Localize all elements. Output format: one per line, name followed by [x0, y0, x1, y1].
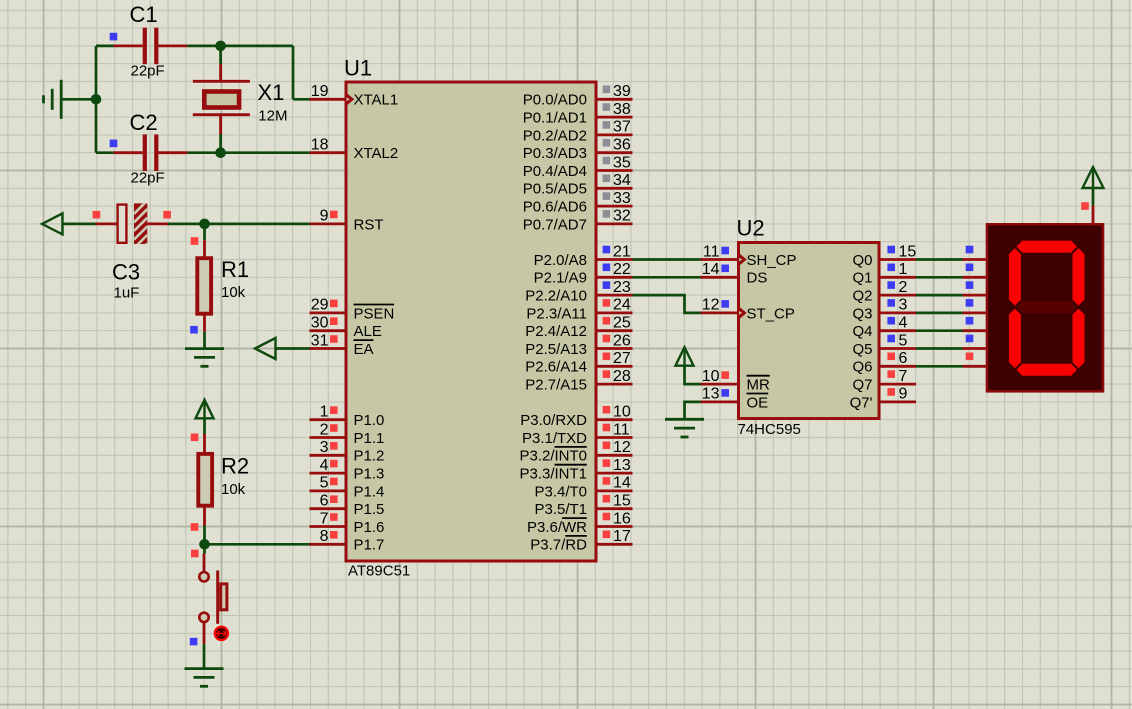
- svg-text:31: 31: [311, 332, 329, 349]
- svg-text:12M: 12M: [258, 107, 287, 124]
- svg-text:DS: DS: [747, 270, 768, 287]
- svg-text:22pF: 22pF: [131, 63, 165, 80]
- svg-text:12: 12: [702, 297, 720, 314]
- svg-text:13: 13: [702, 386, 720, 403]
- svg-text:1: 1: [899, 261, 908, 278]
- svg-text:Q3: Q3: [852, 305, 872, 322]
- svg-text:P0.6/AD6: P0.6/AD6: [523, 199, 587, 216]
- svg-text:P2.4/A12: P2.4/A12: [525, 323, 587, 340]
- svg-text:33: 33: [613, 190, 631, 207]
- svg-text:P0.0/AD0: P0.0/AD0: [523, 92, 587, 109]
- svg-text:1: 1: [320, 404, 329, 421]
- svg-text:37: 37: [613, 119, 631, 136]
- svg-text:SH_CP: SH_CP: [747, 252, 797, 269]
- svg-text:22: 22: [613, 261, 631, 278]
- svg-text:Q2: Q2: [852, 288, 872, 305]
- svg-text:7: 7: [320, 510, 329, 527]
- svg-text:18: 18: [311, 137, 329, 154]
- svg-text:C3: C3: [112, 260, 140, 285]
- svg-text:P3.2/INT0: P3.2/INT0: [519, 448, 587, 465]
- svg-text:19: 19: [311, 83, 329, 100]
- svg-text:C1: C1: [130, 2, 158, 27]
- svg-text:P2.0/A8: P2.0/A8: [534, 252, 587, 269]
- svg-text:P3.6/WR: P3.6/WR: [527, 519, 587, 536]
- svg-text:3: 3: [320, 439, 329, 456]
- svg-text:P0.4/AD4: P0.4/AD4: [523, 163, 587, 180]
- svg-text:1uF: 1uF: [114, 285, 140, 302]
- svg-text:P1.7: P1.7: [354, 537, 385, 554]
- svg-text:U1: U1: [344, 56, 372, 81]
- svg-text:P2.5/A13: P2.5/A13: [525, 341, 587, 358]
- svg-text:Q5: Q5: [852, 341, 872, 358]
- svg-text:P1.0: P1.0: [354, 412, 385, 429]
- svg-text:3: 3: [899, 297, 908, 314]
- svg-text:P2.6/A14: P2.6/A14: [525, 359, 587, 376]
- svg-text:PSEN: PSEN: [354, 305, 395, 322]
- svg-text:10k: 10k: [221, 284, 246, 301]
- svg-text:22pF: 22pF: [131, 170, 165, 187]
- svg-text:Q7: Q7: [852, 377, 872, 394]
- svg-text:12: 12: [613, 439, 631, 456]
- svg-text:MR: MR: [747, 377, 770, 394]
- svg-text:26: 26: [613, 332, 631, 349]
- svg-text:4: 4: [899, 315, 908, 332]
- svg-text:XTAL1: XTAL1: [354, 92, 399, 109]
- svg-text:15: 15: [613, 493, 631, 510]
- svg-text:RST: RST: [354, 216, 384, 233]
- svg-text:11: 11: [703, 243, 720, 260]
- svg-text:34: 34: [613, 172, 631, 189]
- svg-text:8: 8: [320, 528, 329, 545]
- svg-text:24: 24: [613, 297, 631, 314]
- svg-text:P2.7/A15: P2.7/A15: [525, 377, 587, 394]
- svg-text:23: 23: [613, 279, 631, 296]
- svg-text:5: 5: [899, 332, 908, 349]
- svg-text:10: 10: [702, 368, 720, 385]
- svg-text:27: 27: [613, 350, 631, 367]
- svg-text:XTAL2: XTAL2: [354, 145, 399, 162]
- svg-text:P1.3: P1.3: [354, 466, 385, 483]
- svg-text:10k: 10k: [221, 481, 246, 498]
- svg-text:Q4: Q4: [852, 323, 872, 340]
- svg-text:13: 13: [613, 457, 631, 474]
- svg-text:6: 6: [320, 493, 329, 510]
- svg-text:25: 25: [613, 315, 631, 332]
- svg-text:14: 14: [613, 475, 631, 492]
- svg-text:OE: OE: [747, 394, 769, 411]
- svg-text:P3.1/TXD: P3.1/TXD: [522, 430, 587, 447]
- svg-text:P2.1/A9: P2.1/A9: [534, 270, 587, 287]
- svg-text:P1.5: P1.5: [354, 501, 385, 518]
- svg-text:6: 6: [899, 350, 908, 367]
- svg-text:P0.2/AD2: P0.2/AD2: [523, 127, 587, 144]
- svg-text:32: 32: [613, 208, 631, 225]
- svg-text:Q0: Q0: [852, 252, 872, 269]
- svg-text:7: 7: [899, 368, 908, 385]
- svg-text:U2: U2: [737, 216, 765, 241]
- svg-text:P3.5/T1: P3.5/T1: [534, 501, 587, 518]
- svg-text:39: 39: [613, 83, 631, 100]
- svg-text:ST_CP: ST_CP: [747, 305, 795, 322]
- svg-text:R1: R1: [221, 257, 249, 282]
- svg-text:4: 4: [320, 457, 329, 474]
- svg-text:11: 11: [613, 421, 630, 438]
- svg-text:P1.1: P1.1: [354, 430, 385, 447]
- svg-text:P2.2/A10: P2.2/A10: [525, 288, 587, 305]
- svg-text:35: 35: [613, 154, 631, 171]
- svg-text:AT89C51: AT89C51: [348, 563, 410, 580]
- svg-text:15: 15: [899, 243, 917, 260]
- svg-text:P3.0/RXD: P3.0/RXD: [520, 412, 587, 429]
- svg-text:17: 17: [613, 528, 631, 545]
- svg-text:P1.4: P1.4: [354, 483, 385, 500]
- svg-text:29: 29: [311, 297, 329, 314]
- svg-text:P1.2: P1.2: [354, 448, 385, 465]
- svg-text:P0.1/AD1: P0.1/AD1: [523, 110, 587, 127]
- svg-text:9: 9: [899, 386, 908, 403]
- svg-text:Q6: Q6: [852, 359, 872, 376]
- svg-text:36: 36: [613, 137, 631, 154]
- svg-text:Q7': Q7': [850, 394, 873, 411]
- svg-text:38: 38: [613, 101, 631, 118]
- svg-text:9: 9: [320, 208, 329, 225]
- svg-text:Q1: Q1: [852, 270, 872, 287]
- svg-text:P0.7/AD7: P0.7/AD7: [523, 216, 587, 233]
- svg-text:P3.7/RD: P3.7/RD: [530, 537, 587, 554]
- svg-text:10: 10: [613, 404, 631, 421]
- svg-text:14: 14: [702, 261, 720, 278]
- svg-text:P0.3/AD3: P0.3/AD3: [523, 145, 587, 162]
- svg-text:30: 30: [311, 315, 329, 332]
- svg-text:P2.3/A11: P2.3/A11: [526, 305, 587, 322]
- svg-text:74HC595: 74HC595: [738, 421, 801, 438]
- svg-text:R2: R2: [221, 454, 249, 479]
- svg-text:5: 5: [320, 475, 329, 492]
- svg-text:P1.6: P1.6: [354, 519, 385, 536]
- svg-text:P3.3/INT1: P3.3/INT1: [519, 466, 587, 483]
- svg-text:P0.5/AD5: P0.5/AD5: [523, 181, 587, 198]
- svg-text:28: 28: [613, 368, 631, 385]
- svg-text:X1: X1: [258, 80, 285, 105]
- svg-text:ALE: ALE: [354, 323, 382, 340]
- svg-text:P3.4/T0: P3.4/T0: [534, 483, 587, 500]
- svg-text:2: 2: [899, 279, 908, 296]
- svg-text:2: 2: [320, 421, 329, 438]
- svg-text:EA: EA: [354, 341, 374, 358]
- svg-text:C2: C2: [130, 110, 158, 135]
- svg-text:16: 16: [613, 510, 631, 527]
- svg-text:21: 21: [613, 243, 631, 260]
